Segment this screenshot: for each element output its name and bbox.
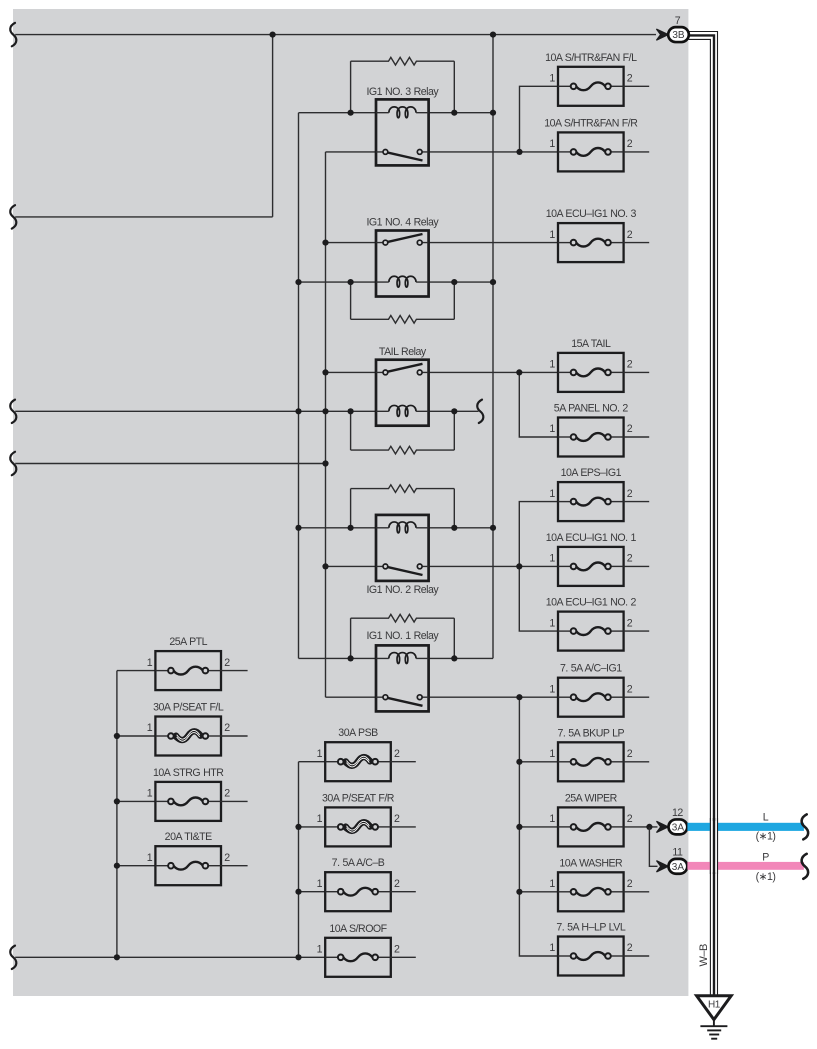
svg-text:2: 2: [224, 852, 230, 864]
svg-text:7. 5A BKUP LP: 7. 5A BKUP LP: [557, 727, 624, 739]
fuse 25A PTL: [147, 636, 230, 690]
svg-text:IG1 NO. 2 Relay: IG1 NO. 2 Relay: [366, 584, 439, 596]
wire output of 7. 5A H–LP LVL: [624, 955, 650, 957]
svg-text:IG1 NO. 4 Relay: IG1 NO. 4 Relay: [366, 217, 439, 229]
main bus wire x=493: [492, 35, 494, 659]
wire stub BKUP LP: [519, 761, 558, 763]
svg-text:1: 1: [549, 73, 555, 85]
wire output of 20A TI&TE: [221, 865, 248, 867]
svg-text:1: 1: [317, 878, 323, 890]
svg-text:1: 1: [147, 657, 153, 669]
wire output of 7. 5A A/C–B: [391, 891, 416, 893]
connector 3B oval: [668, 27, 689, 42]
svg-text:30A P/SEAT F/L: 30A P/SEAT F/L: [153, 702, 224, 714]
svg-text:30A PSB: 30A PSB: [338, 727, 378, 739]
wire stub WASHER: [519, 891, 558, 893]
fuse 30A P/SEAT F/R: [317, 792, 400, 846]
svg-text:1: 1: [317, 944, 323, 956]
resistor across IG1 NO.2 relay coil: [351, 485, 455, 493]
ground bars: [700, 1026, 727, 1039]
svg-text:1: 1: [549, 488, 555, 500]
wire branch WIPER output to pin 11: [649, 827, 657, 866]
svg-text:10A ECU–IG1 NO. 2: 10A ECU–IG1 NO. 2: [546, 597, 637, 609]
svg-text:25A PTL: 25A PTL: [169, 636, 207, 648]
wire resistor legs IG1 NO.2: [350, 489, 352, 528]
svg-text:2: 2: [224, 788, 230, 800]
wire stub P/SEAT F/R: [299, 826, 326, 828]
fuse 25A WIPER: [549, 792, 632, 846]
svg-text:2: 2: [394, 944, 400, 956]
wire resistor legs TAIL: [350, 411, 352, 450]
wire output of 10A ECU–IG1 NO. 1: [624, 565, 650, 567]
ground triangle H1: [697, 996, 732, 1020]
svg-text:TAIL Relay: TAIL Relay: [379, 346, 427, 358]
svg-text:2: 2: [627, 813, 633, 825]
wire output of 10A ECU–IG1 NO. 3: [624, 242, 650, 244]
svg-text:1: 1: [549, 683, 555, 695]
wire output of 10A ECU–IG1 NO. 2: [624, 630, 650, 632]
fuse 7. 5A A/C–IG1: [549, 663, 632, 717]
svg-text:1: 1: [549, 229, 555, 241]
svg-text:1: 1: [549, 359, 555, 371]
fuse 10A S/HTR&FAN F/L: [545, 52, 637, 106]
resistor across IG1 NO.1 relay coil: [351, 614, 455, 622]
relay IG1 NO. 1 Relay: [366, 630, 439, 711]
resistor across IG1 NO.3 relay coil: [351, 57, 455, 65]
svg-text:1: 1: [147, 722, 153, 734]
svg-text:1: 1: [317, 813, 323, 825]
wire output of 10A WASHER: [624, 891, 650, 893]
wire output of 30A PSB: [391, 761, 416, 763]
svg-text:P: P: [762, 851, 769, 863]
wire feed S/HTR&FAN F/L: [520, 86, 559, 152]
fuse 30A PSB: [317, 727, 400, 781]
svg-text:(∗1): (∗1): [756, 830, 776, 842]
fuse 10A ECU–IG1 NO. 3: [546, 208, 637, 262]
break symbol left 1: [10, 23, 16, 46]
svg-text:IG1 NO. 1 Relay: IG1 NO. 1 Relay: [366, 630, 439, 642]
wire L (blue) from pin 12: [687, 823, 804, 831]
fuse 10A ECU–IG1 NO. 2: [546, 597, 637, 651]
wire IG1 NO.1 coil line: [299, 657, 377, 659]
svg-text:12: 12: [672, 807, 683, 819]
wire from left 3 (TAIL relay coil feed): [15, 410, 376, 412]
fuse 7. 5A BKUP LP: [549, 727, 632, 781]
wire output of 5A PANEL NO. 2: [624, 436, 650, 438]
svg-text:1: 1: [549, 748, 555, 760]
wire TAIL switch line: [326, 371, 377, 373]
svg-text:1: 1: [147, 788, 153, 800]
fuse 10A STRG HTR: [147, 767, 230, 821]
ground stem: [713, 1020, 715, 1027]
svg-text:2: 2: [627, 683, 633, 695]
svg-text:(∗1): (∗1): [756, 871, 776, 883]
wire output of 7. 5A A/C–IG1: [624, 696, 650, 698]
wire riser x=272.6: [272, 35, 274, 217]
svg-text:10A S/ROOF: 10A S/ROOF: [329, 923, 387, 935]
svg-text:10A EPS–IG1: 10A EPS–IG1: [561, 467, 622, 479]
svg-text:2: 2: [627, 553, 633, 565]
svg-text:2: 2: [627, 423, 633, 435]
svg-text:1: 1: [317, 748, 323, 760]
relay TAIL Relay: [376, 346, 429, 426]
wire output of 7. 5A BKUP LP: [624, 761, 650, 763]
svg-text:11: 11: [672, 847, 683, 859]
svg-text:1: 1: [549, 423, 555, 435]
svg-text:1: 1: [549, 138, 555, 150]
wire feed middle fuse column: [299, 762, 326, 958]
wire stub WIPER: [519, 826, 558, 828]
fuse 10A ECU–IG1 NO. 1: [546, 532, 637, 586]
wire IG1 NO.3 switch line: [326, 151, 377, 153]
wire output of 30A P/SEAT F/L: [221, 735, 248, 737]
svg-text:25A WIPER: 25A WIPER: [565, 792, 618, 804]
svg-text:1: 1: [549, 617, 555, 629]
svg-text:2: 2: [224, 657, 230, 669]
fuse 10A WASHER: [549, 857, 632, 911]
W-B wire crossing over colored wires: [710, 818, 717, 874]
wire stub A/C-B: [299, 891, 326, 893]
svg-text:20A TI&TE: 20A TI&TE: [165, 831, 212, 843]
svg-text:5A PANEL NO. 2: 5A PANEL NO. 2: [554, 403, 629, 415]
wire output of 10A S/ROOF: [391, 956, 416, 958]
wire output of 10A S/HTR&FAN F/L: [624, 85, 650, 87]
svg-text:2: 2: [627, 748, 633, 760]
break symbol left 3: [10, 400, 16, 423]
svg-text:2: 2: [627, 488, 633, 500]
wire output of 10A S/HTR&FAN F/R: [624, 151, 650, 153]
svg-text:1: 1: [549, 813, 555, 825]
svg-text:10A S/HTR&FAN F/R: 10A S/HTR&FAN F/R: [544, 117, 638, 129]
break symbol left 4: [10, 452, 16, 475]
resistor across IG1 NO.4 relay coil: [351, 316, 455, 324]
svg-text:1: 1: [549, 878, 555, 890]
svg-text:H1: H1: [708, 1000, 721, 1011]
wire feed PANEL NO.2: [519, 372, 558, 437]
svg-text:30A P/SEAT F/R: 30A P/SEAT F/R: [322, 792, 395, 804]
svg-text:2: 2: [224, 722, 230, 734]
fuse 20A TI&TE: [147, 831, 230, 885]
relay IG1 NO. 2 Relay: [366, 515, 439, 596]
wire resistor legs IG1 NO.4: [350, 282, 352, 319]
connector 3A pin 11 arrow: [657, 861, 669, 872]
svg-text:2: 2: [627, 878, 633, 890]
wire output of 10A STRG HTR: [221, 800, 248, 802]
wire resistor legs IG1 NO.1: [350, 618, 352, 658]
svg-text:7. 5A H–LP LVL: 7. 5A H–LP LVL: [556, 922, 626, 934]
fuse 30A P/SEAT F/L: [147, 702, 230, 756]
wire IG1 NO.4 coil line: [299, 281, 377, 283]
wire output of 25A PTL: [221, 670, 248, 672]
wire feed EPS / ECU-IG1 NO.2: [519, 502, 558, 631]
wire output of 30A P/SEAT F/R: [391, 826, 416, 828]
svg-text:10A WASHER: 10A WASHER: [559, 857, 623, 869]
wire stub STRG HTR: [117, 800, 155, 802]
svg-text:2: 2: [627, 942, 633, 954]
fuse 7. 5A A/C–B: [317, 857, 400, 911]
svg-text:W–B: W–B: [698, 944, 710, 967]
wire stub P/SEAT F/L: [117, 735, 155, 737]
svg-text:10A STRG HTR: 10A STRG HTR: [153, 767, 224, 779]
svg-text:10A ECU–IG1 NO. 3: 10A ECU–IG1 NO. 3: [546, 208, 637, 220]
svg-text:L: L: [763, 812, 769, 824]
connector 3A pin 11 oval: [669, 859, 688, 874]
wire from left 4: [15, 463, 325, 465]
wire TAIL coil line right: [429, 410, 479, 412]
switch-side bus wire x=325.5: [325, 152, 327, 697]
fuse 10A S/ROOF: [317, 923, 400, 977]
wire IG1 NO.3 coil line: [299, 112, 377, 114]
svg-text:3B: 3B: [672, 30, 685, 41]
svg-text:2: 2: [627, 138, 633, 150]
svg-text:2: 2: [394, 748, 400, 760]
svg-text:1: 1: [549, 553, 555, 565]
svg-text:2: 2: [627, 617, 633, 629]
svg-text:2: 2: [627, 73, 633, 85]
coil-side bus wire x=298.5: [298, 113, 300, 659]
break symbol blue wire: [802, 814, 809, 839]
svg-text:10A S/HTR&FAN F/L: 10A S/HTR&FAN F/L: [545, 52, 637, 64]
svg-text:2: 2: [627, 229, 633, 241]
wire from left 5 (bottom feed): [15, 956, 325, 958]
wire IG1 NO.2 coil line: [299, 527, 377, 529]
resistor across TAIL relay coil: [351, 446, 455, 454]
connector 3A pin 12 arrow: [657, 821, 669, 832]
svg-text:3A: 3A: [672, 823, 685, 834]
connector 3A pin 12 oval: [669, 819, 688, 834]
wire from left (top feed): [15, 34, 656, 36]
svg-text:7: 7: [675, 15, 681, 27]
fuse 7. 5A H–LP LVL: [549, 922, 632, 976]
connector 3B arrow: [656, 29, 668, 40]
break symbol pink wire: [802, 854, 809, 879]
svg-text:7. 5A A/C–IG1: 7. 5A A/C–IG1: [560, 663, 622, 675]
svg-text:2: 2: [627, 359, 633, 371]
wire from left 2: [15, 216, 272, 218]
wire output of 25A WIPER: [624, 826, 658, 828]
wire IG1 NO.2 switch line: [326, 565, 377, 567]
wire resistor legs IG1 NO.3: [350, 61, 352, 112]
svg-text:7. 5A A/C–B: 7. 5A A/C–B: [332, 857, 385, 869]
fuse 5A PANEL NO. 2: [549, 403, 632, 457]
relay IG1 NO. 3 Relay: [366, 86, 439, 165]
break symbol TAIL coil: [477, 400, 483, 423]
fuse 15A TAIL: [549, 338, 632, 392]
wire output of 10A EPS–IG1: [624, 501, 650, 503]
svg-text:10A ECU–IG1 NO. 1: 10A ECU–IG1 NO. 1: [546, 532, 637, 544]
svg-text:15A TAIL: 15A TAIL: [571, 338, 611, 350]
wire feed lower right fuses: [519, 697, 558, 956]
wire P (pink) from pin 11: [687, 862, 804, 870]
svg-text:IG1 NO. 3 Relay: IG1 NO. 3 Relay: [366, 86, 439, 98]
relay IG1 NO. 4 Relay: [366, 217, 439, 297]
wire feed left fuse column: [117, 671, 155, 958]
svg-text:3A: 3A: [672, 862, 685, 873]
svg-text:1: 1: [549, 942, 555, 954]
svg-text:1: 1: [147, 852, 153, 864]
break symbol left 5: [10, 946, 16, 969]
wire output of 15A TAIL: [624, 371, 650, 373]
break symbol left 2: [10, 205, 16, 228]
wire IG1 NO.1 switch line: [326, 696, 377, 698]
W-B wire to ground (double line): [689, 32, 718, 996]
wire stub TI&TE: [117, 865, 155, 867]
svg-text:2: 2: [394, 813, 400, 825]
fuse 10A S/HTR&FAN F/R: [544, 117, 638, 171]
fuse 10A EPS–IG1: [549, 467, 632, 521]
junction block background: [13, 9, 688, 996]
wire IG1 NO.4 switch line: [326, 242, 377, 244]
svg-text:2: 2: [394, 878, 400, 890]
